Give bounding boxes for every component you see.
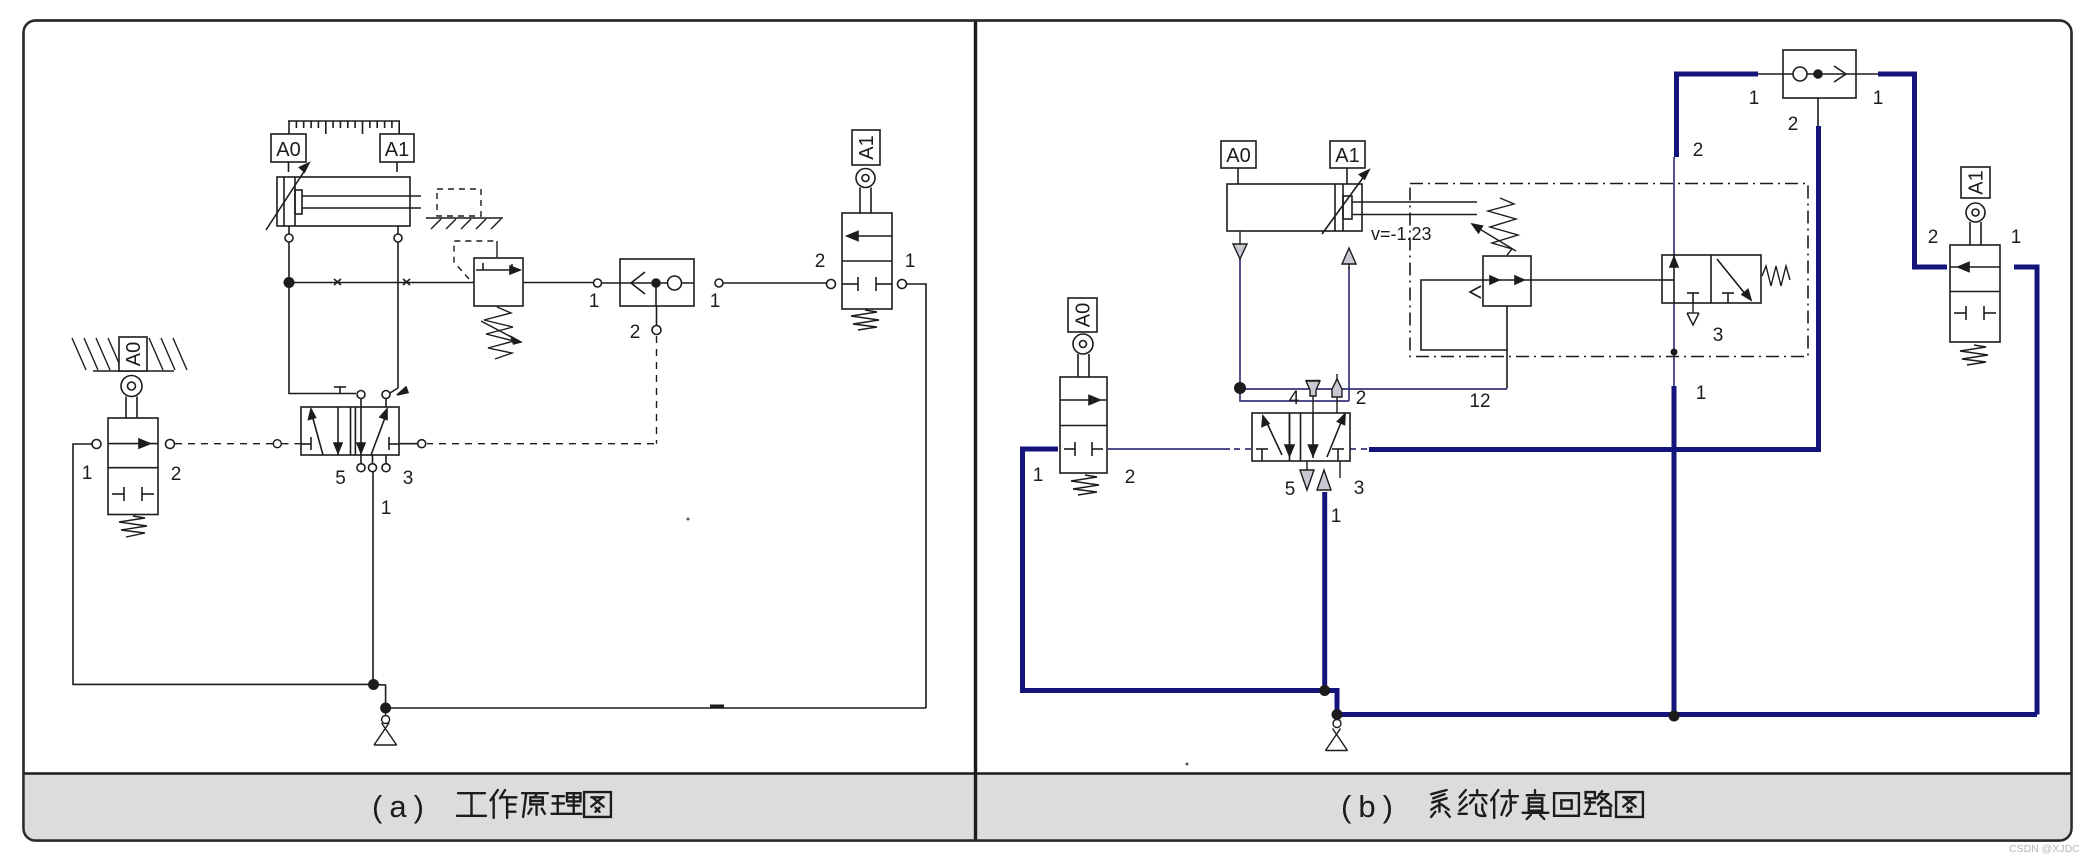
roller actuator of V4 [121, 376, 142, 419]
svg-text:3: 3 [403, 468, 414, 489]
svg-text:2: 2 [1693, 140, 1704, 161]
3/2 roller valve V8 (A0, right panel) [1060, 377, 1107, 473]
label A0 (cylinder left) [276, 139, 300, 161]
svg-text:1: 1 [905, 251, 916, 272]
wire jog to second junction [374, 685, 386, 709]
one-way flow control valve T1 [1470, 256, 1531, 306]
svg-text:(b): (b) [1341, 789, 1400, 824]
svg-text:CSDN @XJDC: CSDN @XJDC [2009, 843, 2080, 855]
svg-text:A0: A0 [1073, 303, 1095, 327]
V3 ports and labels [827, 280, 907, 289]
label 1 (left of shuttle valve) [589, 291, 600, 312]
wire V4 port1 to supply loop [73, 444, 368, 684]
sequence valve spring (adjustable) [481, 307, 521, 359]
junction node bottom (right panel) [1319, 685, 1330, 696]
label 2 (V6 top) [1693, 140, 1704, 161]
T1 bypass wires [1421, 280, 1662, 389]
wire bottom supply line to V3 [386, 706, 926, 708]
label 3 (V6) [1713, 325, 1724, 346]
wire thick: check valve left to in-box valve port2 [1677, 74, 1759, 157]
velocity text v=-1.23 [1371, 224, 1432, 244]
svg-text:2: 2 [815, 251, 826, 272]
svg-text:2: 2 [1356, 388, 1367, 409]
V6 spring [1762, 266, 1790, 286]
svg-text:1: 1 [1873, 88, 1884, 109]
flow arrow down (V7 port 4) [1306, 381, 1320, 397]
junction node 2 bottom [380, 703, 391, 714]
junction node bottom-left [368, 679, 379, 690]
label 2 (check valve block) [630, 322, 641, 343]
wire thick: check valve port2 down and left to 5/2 port2 line [1369, 126, 1819, 450]
wire thick: in-box valve port1 down to bottom line [1672, 386, 1677, 715]
label 1 (V8) [1033, 465, 1044, 486]
flow arrow up (cylinder A1 port) [1342, 248, 1356, 269]
cylinder B (right panel) [1227, 170, 1477, 234]
3/2 roller valve V9 (A1, right panel) [1950, 245, 2000, 342]
V6 exhaust port 3 [1687, 303, 1699, 325]
flow arrow down (cylinder A0 port) [1233, 231, 1247, 259]
svg-text:2: 2 [630, 322, 641, 343]
svg-text:1: 1 [589, 291, 600, 312]
wire V5 port1 down to junction [372, 472, 374, 682]
label 2 (V4) [171, 464, 182, 485]
junction node (cylinder lines) [284, 277, 295, 288]
label 1 (V4) [82, 463, 93, 484]
junction node on bottom line [1669, 711, 1680, 722]
wire V3 right port down to supply line [907, 284, 927, 708]
V5 right port to pilot node [399, 440, 426, 448]
label 1 (C1 left) [1749, 88, 1760, 109]
svg-text:A1: A1 [1335, 145, 1359, 167]
wire thin: cylinder A1 port down [1348, 267, 1350, 401]
wire dash: 5/2 right port stub [1350, 448, 1369, 450]
3/2 roller valve V3 (A1, left panel) [842, 213, 892, 309]
svg-text:2: 2 [171, 464, 182, 485]
spring of V3 [851, 310, 879, 330]
svg-text:5: 5 [335, 468, 346, 489]
caption text: xi-tong-fang-zhen-hui-lu-tu [1431, 790, 1450, 817]
svg-text:A0: A0 [1226, 145, 1250, 167]
label 2 (C1 bottom) [1788, 114, 1799, 135]
check valve port 2 with pilot takeoff [652, 287, 661, 335]
caption band [24, 773, 2071, 841]
svg-text:1: 1 [1033, 465, 1044, 486]
wire thin: junction to 5/2 top ports [1240, 388, 1349, 401]
label 3 [403, 468, 414, 489]
5/2 valve V7 (right panel) [1252, 413, 1350, 461]
V4 ports and labels [92, 440, 175, 449]
label box A1 (on V3) [852, 130, 880, 165]
label 2 (V3) [815, 251, 826, 272]
sequence valve V1 (pilot operated, spring return) [474, 258, 523, 306]
node right of check valve block [715, 279, 827, 287]
pilot line dashed from port 2 down to 5/2 valve port [427, 336, 657, 444]
load spring at rod end (adjustable) [1472, 198, 1518, 255]
label box A1 (cylinder B) [1330, 141, 1365, 184]
label 3 (V7) [1354, 478, 1365, 499]
cylinder A (left panel) with measuring scale [266, 121, 421, 230]
svg-text:1: 1 [1331, 506, 1342, 527]
label 1 (V9) [2011, 227, 2022, 248]
label 2 (V8) [1125, 467, 1136, 488]
panel divider [974, 21, 977, 840]
5/2 valve V5 (left panel) [301, 407, 399, 455]
wire sequence valve to shuttle valve, node 1 [523, 279, 620, 287]
svg-text:A0: A0 [276, 139, 300, 161]
wire thick: A1 valve port1 down to bottom line [2014, 267, 2037, 715]
label 4 [1289, 388, 1300, 409]
V5 top ports [357, 391, 390, 408]
svg-text:(a): (a) [372, 789, 431, 824]
roller actuator of V8 [1073, 334, 1093, 377]
svg-text:2: 2 [1928, 227, 1939, 248]
junction node (right panel, cylinder/pilot) [1234, 382, 1246, 394]
svg-text:5: 5 [1285, 479, 1296, 500]
watermark [2009, 843, 2080, 855]
label 1 (right of check valve block) [710, 291, 721, 312]
check valve C1 (top, right panel) [1758, 50, 1878, 126]
svg-text:4: 4 [1289, 388, 1300, 409]
svg-text:3: 3 [1713, 325, 1724, 346]
label 5 (V7) [1285, 479, 1296, 500]
wire thick: bottom supply line right panel [1325, 691, 2037, 715]
flow arrow up (V7 port 2) [1332, 374, 1342, 397]
pilot line dashed V4 port2 to 5/2 valve [175, 440, 301, 448]
svg-text:1: 1 [381, 498, 392, 519]
node at dashed box boundary [1671, 349, 1678, 356]
stray dot artifact right panel [1186, 763, 1189, 766]
spring of V4 [119, 516, 147, 537]
wire thin: cylinder A0 port down [1239, 258, 1241, 388]
wire thin: check valve to in-box valve port 2 [1673, 157, 1675, 255]
label 2 (V9) [1928, 227, 1939, 248]
svg-text:v=-1.23: v=-1.23 [1371, 224, 1432, 244]
label 2 (V7 top) [1356, 388, 1367, 409]
V7 port 3 stem [1339, 461, 1341, 478]
svg-text:A1: A1 [856, 135, 878, 159]
3/2 valve V6 (inside dash-dot box) [1662, 255, 1761, 303]
junction node 2 (right panel) [1332, 709, 1343, 720]
wire cylinder A0-port down to junction [288, 242, 290, 282]
label A1 (cylinder right) [385, 139, 409, 161]
wire junction down to 5/2 valve port 4 [289, 288, 356, 394]
svg-text:A1: A1 [385, 139, 409, 161]
wire main line to sequence valve [289, 279, 474, 285]
cylinder A ports [285, 226, 402, 242]
svg-text:12: 12 [1469, 391, 1490, 412]
compressed air source symbol (left) [374, 714, 397, 746]
label 5 [335, 468, 346, 489]
wire cylinder A1-port down to valve port 2 [390, 242, 408, 395]
label box A1 (on V9) [1961, 167, 1990, 198]
3/2 roller valve V4 (A0, left panel) [108, 418, 158, 515]
wire thin: pilot 12 line [1240, 388, 1507, 390]
flow arrow up (V7 port 1) [1317, 470, 1331, 490]
svg-text:2: 2 [1788, 114, 1799, 135]
label 1 (V3) [905, 251, 916, 272]
wire thick: 5/2 port1 down [1322, 492, 1327, 691]
wire thin: in-box valve port1 segment [1673, 303, 1675, 386]
label 1 (V6 bottom) [1696, 383, 1707, 404]
svg-text:1: 1 [710, 291, 721, 312]
svg-text:A1: A1 [1966, 170, 1988, 194]
spring of V9 [1960, 345, 1988, 365]
svg-text:A0: A0 [123, 342, 145, 366]
svg-text:1: 1 [2011, 227, 2022, 248]
check valve block V2 [620, 259, 694, 306]
label box A0 (on V4) with hatching [72, 337, 187, 371]
sequence valve pilot line (dashed) [454, 241, 497, 279]
dash-dot enclosure box [1410, 184, 1808, 357]
label 1 (V5 supply) [381, 498, 392, 519]
label 1 (V7) [1331, 506, 1342, 527]
label box A0 (cylinder B) [1221, 141, 1256, 184]
spring of V8 [1071, 475, 1099, 495]
stray dot artifact left panel [687, 518, 690, 521]
label 1 (C1 right) [1873, 88, 1884, 109]
svg-text:1: 1 [82, 463, 93, 484]
wire thin: A0 valve port2 to 5/2 left port [1108, 448, 1252, 450]
svg-text:1: 1 [1696, 383, 1707, 404]
V5 bottom ports [357, 455, 390, 472]
roller actuator of V9 [1966, 203, 1985, 245]
wire thick: A0 valve port1 supply loop [1023, 449, 1325, 691]
roller actuator of V3 [856, 169, 875, 214]
compressed air source symbol (right) [1326, 720, 1348, 751]
flow arrow down (V7 port 5) [1300, 461, 1314, 490]
caption (a) [372, 789, 431, 824]
label box A0 (on V8) [1068, 298, 1097, 332]
caption (b) [1341, 789, 1400, 824]
label 12 [1469, 391, 1490, 412]
svg-text:2: 2 [1125, 467, 1136, 488]
mount / fixed stop symbol [426, 189, 503, 229]
svg-text:3: 3 [1354, 478, 1365, 499]
V7 top port stems [1313, 395, 1337, 413]
wire thick: check valve right to A1 valve port2 [1878, 74, 1947, 267]
svg-text:1: 1 [1749, 88, 1760, 109]
caption text: gong-zuo-yuan-li-tu [457, 793, 486, 816]
